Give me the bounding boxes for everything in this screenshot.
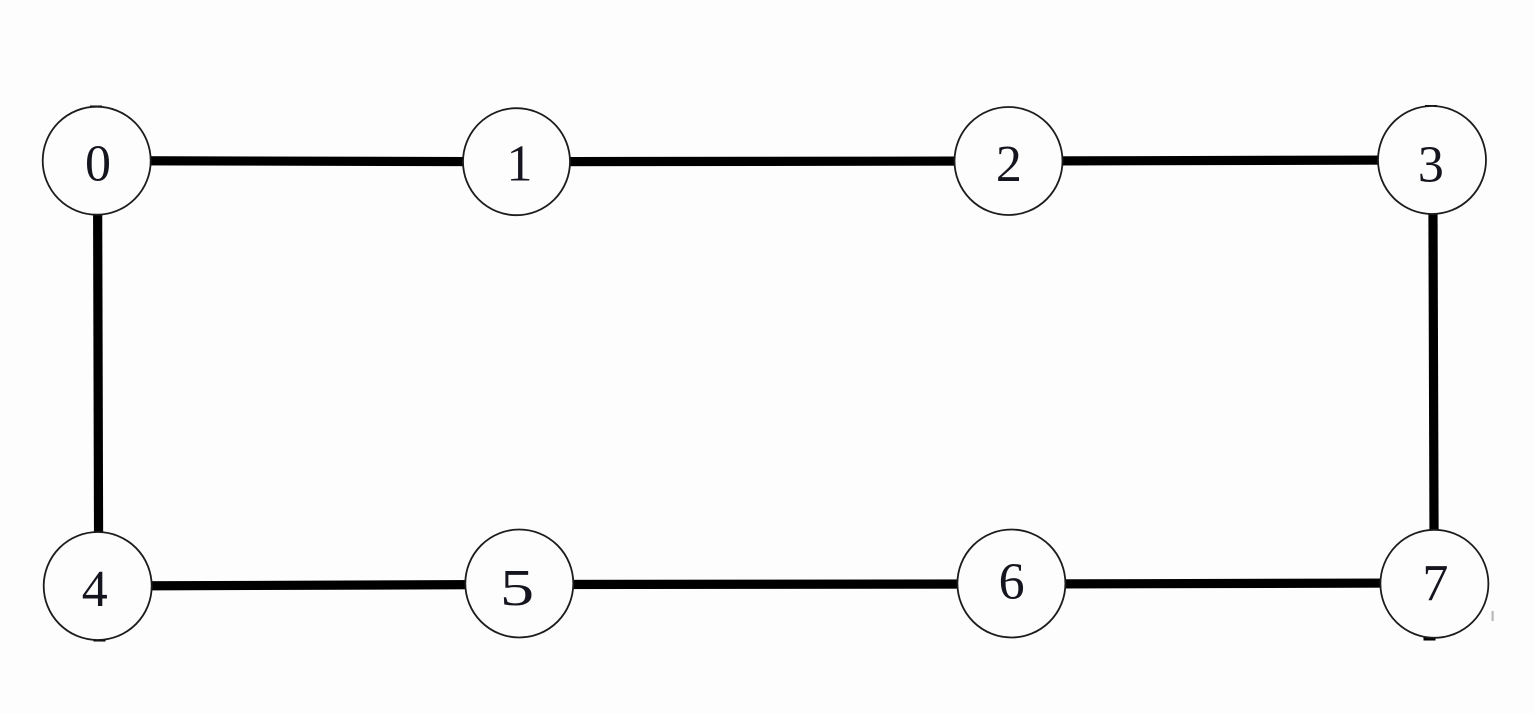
svg-text:7: 7 (1422, 555, 1448, 612)
svg-text:6: 6 (999, 554, 1025, 611)
node 1 (463, 108, 570, 215)
wire edge 1-2 (517, 156, 1009, 166)
wire stub top of node 0 (90, 106, 102, 111)
svg-text:2: 2 (996, 136, 1022, 193)
svg-text:3: 3 (1418, 136, 1444, 193)
svg-text:1: 1 (507, 135, 533, 192)
wire edge 4-5 (98, 585, 520, 587)
wire stub top of node 3 (1425, 105, 1437, 110)
node 4 (44, 532, 152, 640)
node 5 (465, 530, 573, 638)
node 7 (1380, 530, 1488, 638)
node 3 (1378, 106, 1486, 214)
wire edge 3-7 (1433, 160, 1434, 584)
wire stub bottom of node 7 (1424, 637, 1436, 641)
wire edge 5-6 (519, 579, 1011, 589)
svg-text:5: 5 (500, 560, 534, 617)
node 0 (43, 107, 151, 215)
wire edge 0-4 (98, 161, 99, 586)
node 2 (955, 107, 1063, 215)
svg-text:4: 4 (82, 561, 108, 618)
wire edge 2-3 (1009, 160, 1433, 161)
node 6 (957, 530, 1065, 638)
scan artifact dash right of node 7 (1492, 611, 1494, 621)
wire edge 0-1 (97, 161, 517, 162)
svg-text:0: 0 (85, 136, 111, 193)
wire stub bottom of node 4 (94, 638, 106, 642)
wire edge 6-7 (1011, 583, 1434, 584)
